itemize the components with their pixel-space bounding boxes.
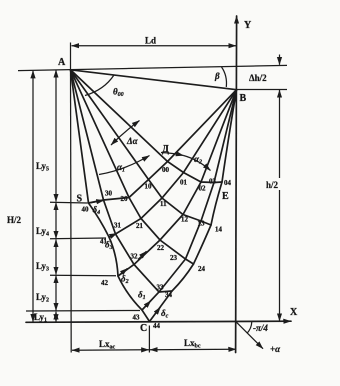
horizontal line through B — [237, 89, 288, 91]
Ld dimension line — [72, 45, 237, 47]
right dim line upper part above A line — [279, 55, 281, 65]
svg-text:B: B — [240, 93, 247, 104]
tick extension line at node 43 level — [26, 310, 140, 313]
Ly dimension line segment Ly2 — [55, 276, 57, 311]
svg-text:31: 31 — [114, 222, 122, 230]
left border vertical through A — [70, 70, 73, 353]
svg-text:X: X — [290, 307, 298, 318]
Ly dimension line segment Ly4 — [55, 203, 57, 239]
svg-text:10: 10 — [145, 183, 153, 191]
svg-text:14: 14 — [215, 226, 223, 234]
characteristic column 0 from B to S — [89, 90, 237, 203]
svg-text:01: 01 — [180, 179, 188, 187]
svg-text:Д: Д — [162, 144, 169, 155]
svg-text:11: 11 — [160, 200, 167, 208]
flow direction arrow delta1 at 43 — [143, 301, 151, 309]
characteristic column 2 from B — [118, 90, 237, 276]
Ly dimension line segment Ly1 — [55, 312, 57, 322]
svg-text:22: 22 — [157, 244, 165, 252]
svg-text:Ld: Ld — [145, 36, 156, 46]
tick extension line at node 42 level — [50, 274, 116, 277]
alpha1 angle arc with arrow — [99, 156, 150, 175]
flow direction arrow delta4 at S — [91, 200, 104, 202]
alpha2 angle arc with arrow — [161, 153, 184, 156]
Y axis — [236, 16, 237, 353]
svg-text:-π/4: -π/4 — [253, 323, 268, 333]
characteristic row 0 from A — [71, 70, 223, 183]
characteristic row 3 from A — [71, 70, 173, 292]
svg-text:Δα: Δα — [126, 136, 139, 146]
svg-text:42: 42 — [101, 279, 109, 287]
extension above A for Ld — [70, 43, 72, 70]
svg-text:A: A — [58, 57, 66, 68]
bottom Lx dimension line right part — [150, 348, 236, 350]
characteristic column 3 from B — [142, 90, 237, 310]
svg-text:h/2: h/2 — [266, 180, 279, 190]
svg-text:21: 21 — [136, 222, 144, 230]
svg-text:24: 24 — [198, 265, 206, 273]
svg-text:β: β — [214, 71, 220, 81]
svg-text:Δh/2: Δh/2 — [249, 73, 267, 83]
line A to B — [71, 70, 237, 90]
svg-text:04: 04 — [224, 179, 232, 187]
characteristic column 1 from B — [109, 90, 237, 237]
direction arrow on col1 near 41 — [109, 233, 117, 237]
svg-text:+α: +α — [270, 344, 281, 354]
svg-text:12: 12 — [181, 216, 189, 224]
horizontal line through A — [18, 65, 287, 70]
Ly dimension line segment Ly5 — [55, 70, 57, 202]
svg-text:41: 41 — [100, 238, 108, 246]
beta angle arc — [222, 67, 227, 87]
direction arrow on col2 mid — [138, 251, 147, 259]
svg-text:30: 30 — [105, 190, 113, 198]
tick extension line at S level — [50, 201, 88, 204]
svg-text:34: 34 — [165, 291, 173, 299]
theta00 angle arc — [85, 75, 114, 96]
svg-text:20: 20 — [121, 195, 129, 203]
bottom Lx dimension line left part — [72, 349, 149, 351]
svg-text:H/2: H/2 — [7, 215, 22, 225]
svg-text:13: 13 — [198, 220, 206, 228]
svg-text:S: S — [77, 194, 83, 205]
svg-text:43: 43 — [133, 314, 141, 322]
svg-text:C: C — [140, 323, 147, 334]
characteristic row 2 from A — [71, 70, 194, 264]
wall characteristic row 4 from A through S to C — [71, 70, 150, 322]
svg-text:02: 02 — [199, 185, 207, 193]
extension below C for Lx — [148, 326, 150, 353]
flow direction arrow delta2 at 42 — [119, 268, 128, 275]
svg-text:40: 40 — [82, 206, 90, 214]
svg-text:E: E — [222, 191, 229, 202]
h/2 label — [265, 178, 288, 190]
H/2 dimension line — [32, 71, 34, 322]
Ly dimension line segment Ly3 — [55, 240, 57, 275]
svg-text:44: 44 — [153, 322, 161, 330]
svg-text:33: 33 — [157, 284, 165, 292]
tick extension line at node 41 level — [50, 237, 106, 240]
flow direction arrow delta c at C — [151, 307, 161, 320]
plus alpha ray with arrow — [236, 322, 263, 349]
right dim line h/2 — [279, 90, 281, 321]
delta alpha angle arc with arrows — [111, 121, 140, 146]
minus pi/4 angle arc at origin — [247, 322, 252, 334]
svg-text:03: 03 — [209, 178, 217, 186]
svg-text:32: 32 — [131, 253, 139, 261]
svg-text:00: 00 — [162, 166, 170, 174]
boundary characteristic column 4 from B through E to C — [150, 90, 237, 322]
X axis — [26, 321, 291, 322]
svg-text:23: 23 — [170, 254, 178, 262]
characteristic row 1 from A — [71, 70, 212, 225]
svg-text:Y: Y — [244, 20, 252, 31]
